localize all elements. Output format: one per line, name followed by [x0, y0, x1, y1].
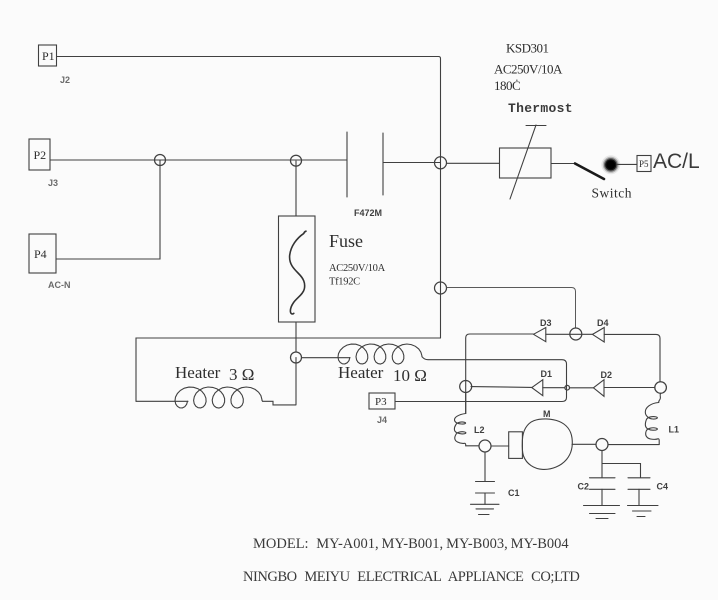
wire fuse junction down to heater3	[295, 358, 297, 405]
wire D2 line	[604, 387, 655, 389]
node junction at 160,160	[155, 155, 166, 166]
diode D1	[532, 380, 543, 396]
svg-text:P4: P4	[34, 247, 47, 261]
svg-text:Fuse: Fuse	[329, 231, 363, 251]
heater 10ohm coil	[338, 344, 422, 364]
svg-text:Tf192C: Tf192C	[329, 277, 360, 288]
svg-text:L1: L1	[669, 425, 680, 435]
node junction at 465,386.5	[460, 381, 472, 393]
diode D3	[534, 328, 546, 342]
wire D1 to junction 465	[471, 386, 532, 389]
wire tiny junction to D1	[543, 387, 565, 389]
wire C2/C4 stem	[601, 451, 603, 478]
connector P5	[637, 156, 651, 172]
wire P4 up to junction	[56, 160, 160, 259]
node junction at 440,288	[435, 282, 447, 294]
svg-text:AC-N: AC-N	[48, 280, 71, 290]
capacitor C4	[628, 478, 650, 506]
svg-text:MODEL: MY-A001, MY-B001, MY-B0: MODEL: MY-A001, MY-B001, MY-B003, MY-B00…	[253, 536, 569, 552]
ground for C2	[584, 506, 620, 519]
heater bus wire	[136, 338, 441, 401]
svg-text:Switch: Switch	[592, 186, 633, 201]
wire D2 to tiny junction	[570, 387, 593, 389]
svg-text:L2: L2	[474, 425, 485, 435]
wire junction down to fuse	[295, 161, 297, 216]
svg-text:D2: D2	[601, 370, 613, 380]
connector P4	[29, 234, 56, 273]
wire D3 to junction	[546, 333, 593, 335]
svg-text:180Ċ: 180Ċ	[494, 78, 520, 93]
switch blade	[575, 164, 604, 180]
svg-text:J2: J2	[60, 75, 70, 85]
svg-text:M: M	[543, 409, 551, 419]
ground for C4	[628, 506, 659, 517]
diode D2	[593, 380, 604, 397]
svg-text:C2: C2	[578, 482, 590, 492]
svg-text:C1: C1	[508, 488, 520, 498]
capacitor F472M right plate	[382, 133, 384, 195]
wire junction to motor	[491, 445, 509, 447]
fuse body	[279, 216, 316, 322]
wire junction to L1	[608, 444, 659, 446]
svg-text:D3: D3	[540, 318, 552, 328]
svg-text:AC250V/10A: AC250V/10A	[494, 62, 563, 77]
connector P3	[369, 393, 395, 409]
heater 3ohm coil	[175, 387, 262, 408]
svg-text:NINGBO MEIYU ELECTRICAL APPLIA: NINGBO MEIYU ELECTRICAL APPLIANCE CO;LTD	[243, 569, 579, 585]
svg-text:F472M: F472M	[354, 208, 382, 218]
wire P2 to capacitor	[50, 159, 347, 161]
node junction at 296,357.5	[291, 352, 302, 363]
wire D4 right and down	[604, 334, 660, 381]
wire thermostat to switch	[551, 163, 576, 165]
diode top line left segment	[466, 334, 534, 414]
wire branch to C4	[602, 464, 641, 478]
motor M	[509, 419, 573, 469]
svg-text:D1: D1	[541, 369, 553, 379]
svg-text:C4: C4	[657, 482, 669, 492]
svg-text:P3: P3	[375, 396, 387, 408]
svg-text:AC250V/10A: AC250V/10A	[329, 263, 386, 274]
svg-text:P2: P2	[34, 148, 47, 162]
svg-text:Heater: Heater	[175, 363, 221, 382]
svg-text:10 Ω: 10 Ω	[393, 366, 427, 385]
node junction at 660.8,387.5	[655, 382, 667, 394]
node junction at 602,444.5	[596, 439, 608, 451]
svg-text:Heater: Heater	[338, 363, 384, 382]
svg-text:P1: P1	[42, 49, 55, 63]
wire blob to P5	[617, 163, 637, 165]
heater 3ohm coil tail	[262, 400, 296, 405]
svg-text:Thermost: Thermost	[508, 101, 573, 116]
svg-text:J3: J3	[48, 178, 58, 188]
wire motor to junction 602	[572, 443, 596, 445]
node junction at 440,163	[435, 157, 447, 169]
wire heater3 left lead	[136, 400, 188, 402]
capacitor C2	[590, 478, 616, 506]
diode D4	[593, 328, 605, 343]
svg-text:KSD301: KSD301	[506, 41, 549, 56]
wire capacitor to thermostat junction	[383, 162, 441, 164]
node junction at 485,446	[479, 440, 491, 452]
capacitor C1	[476, 452, 495, 504]
wire junction to heater 10 coil	[302, 357, 351, 359]
switch contact blob	[601, 155, 620, 174]
svg-text:P5: P5	[639, 159, 649, 169]
svg-text:AC/L: AC/L	[653, 150, 700, 173]
thermostat KSD301 body	[500, 125, 552, 199]
node junction at 296,161	[291, 155, 302, 166]
wire junction to thermostat	[447, 162, 500, 164]
svg-text:D4: D4	[597, 318, 609, 328]
wire vertical main down	[440, 157, 442, 338]
wire junction 440,288 right and down to diode line	[447, 288, 576, 329]
capacitor F472M left plate	[346, 132, 348, 197]
svg-text:J4: J4	[377, 415, 387, 425]
inductor L1	[645, 393, 660, 444]
wire P1 to top-right corner	[57, 57, 441, 158]
wire fuse bottom to heater junction	[295, 322, 297, 352]
connector P2	[29, 139, 50, 170]
heater 10 coil tail and wire to right	[395, 357, 567, 402]
node tiny junction at 567,387.7	[565, 385, 570, 390]
svg-text:3 Ω: 3 Ω	[229, 365, 254, 384]
node junction at 576,334	[570, 328, 582, 340]
inductor L2	[454, 393, 479, 446]
ground for C1	[471, 504, 500, 514]
connector P1	[39, 45, 57, 66]
